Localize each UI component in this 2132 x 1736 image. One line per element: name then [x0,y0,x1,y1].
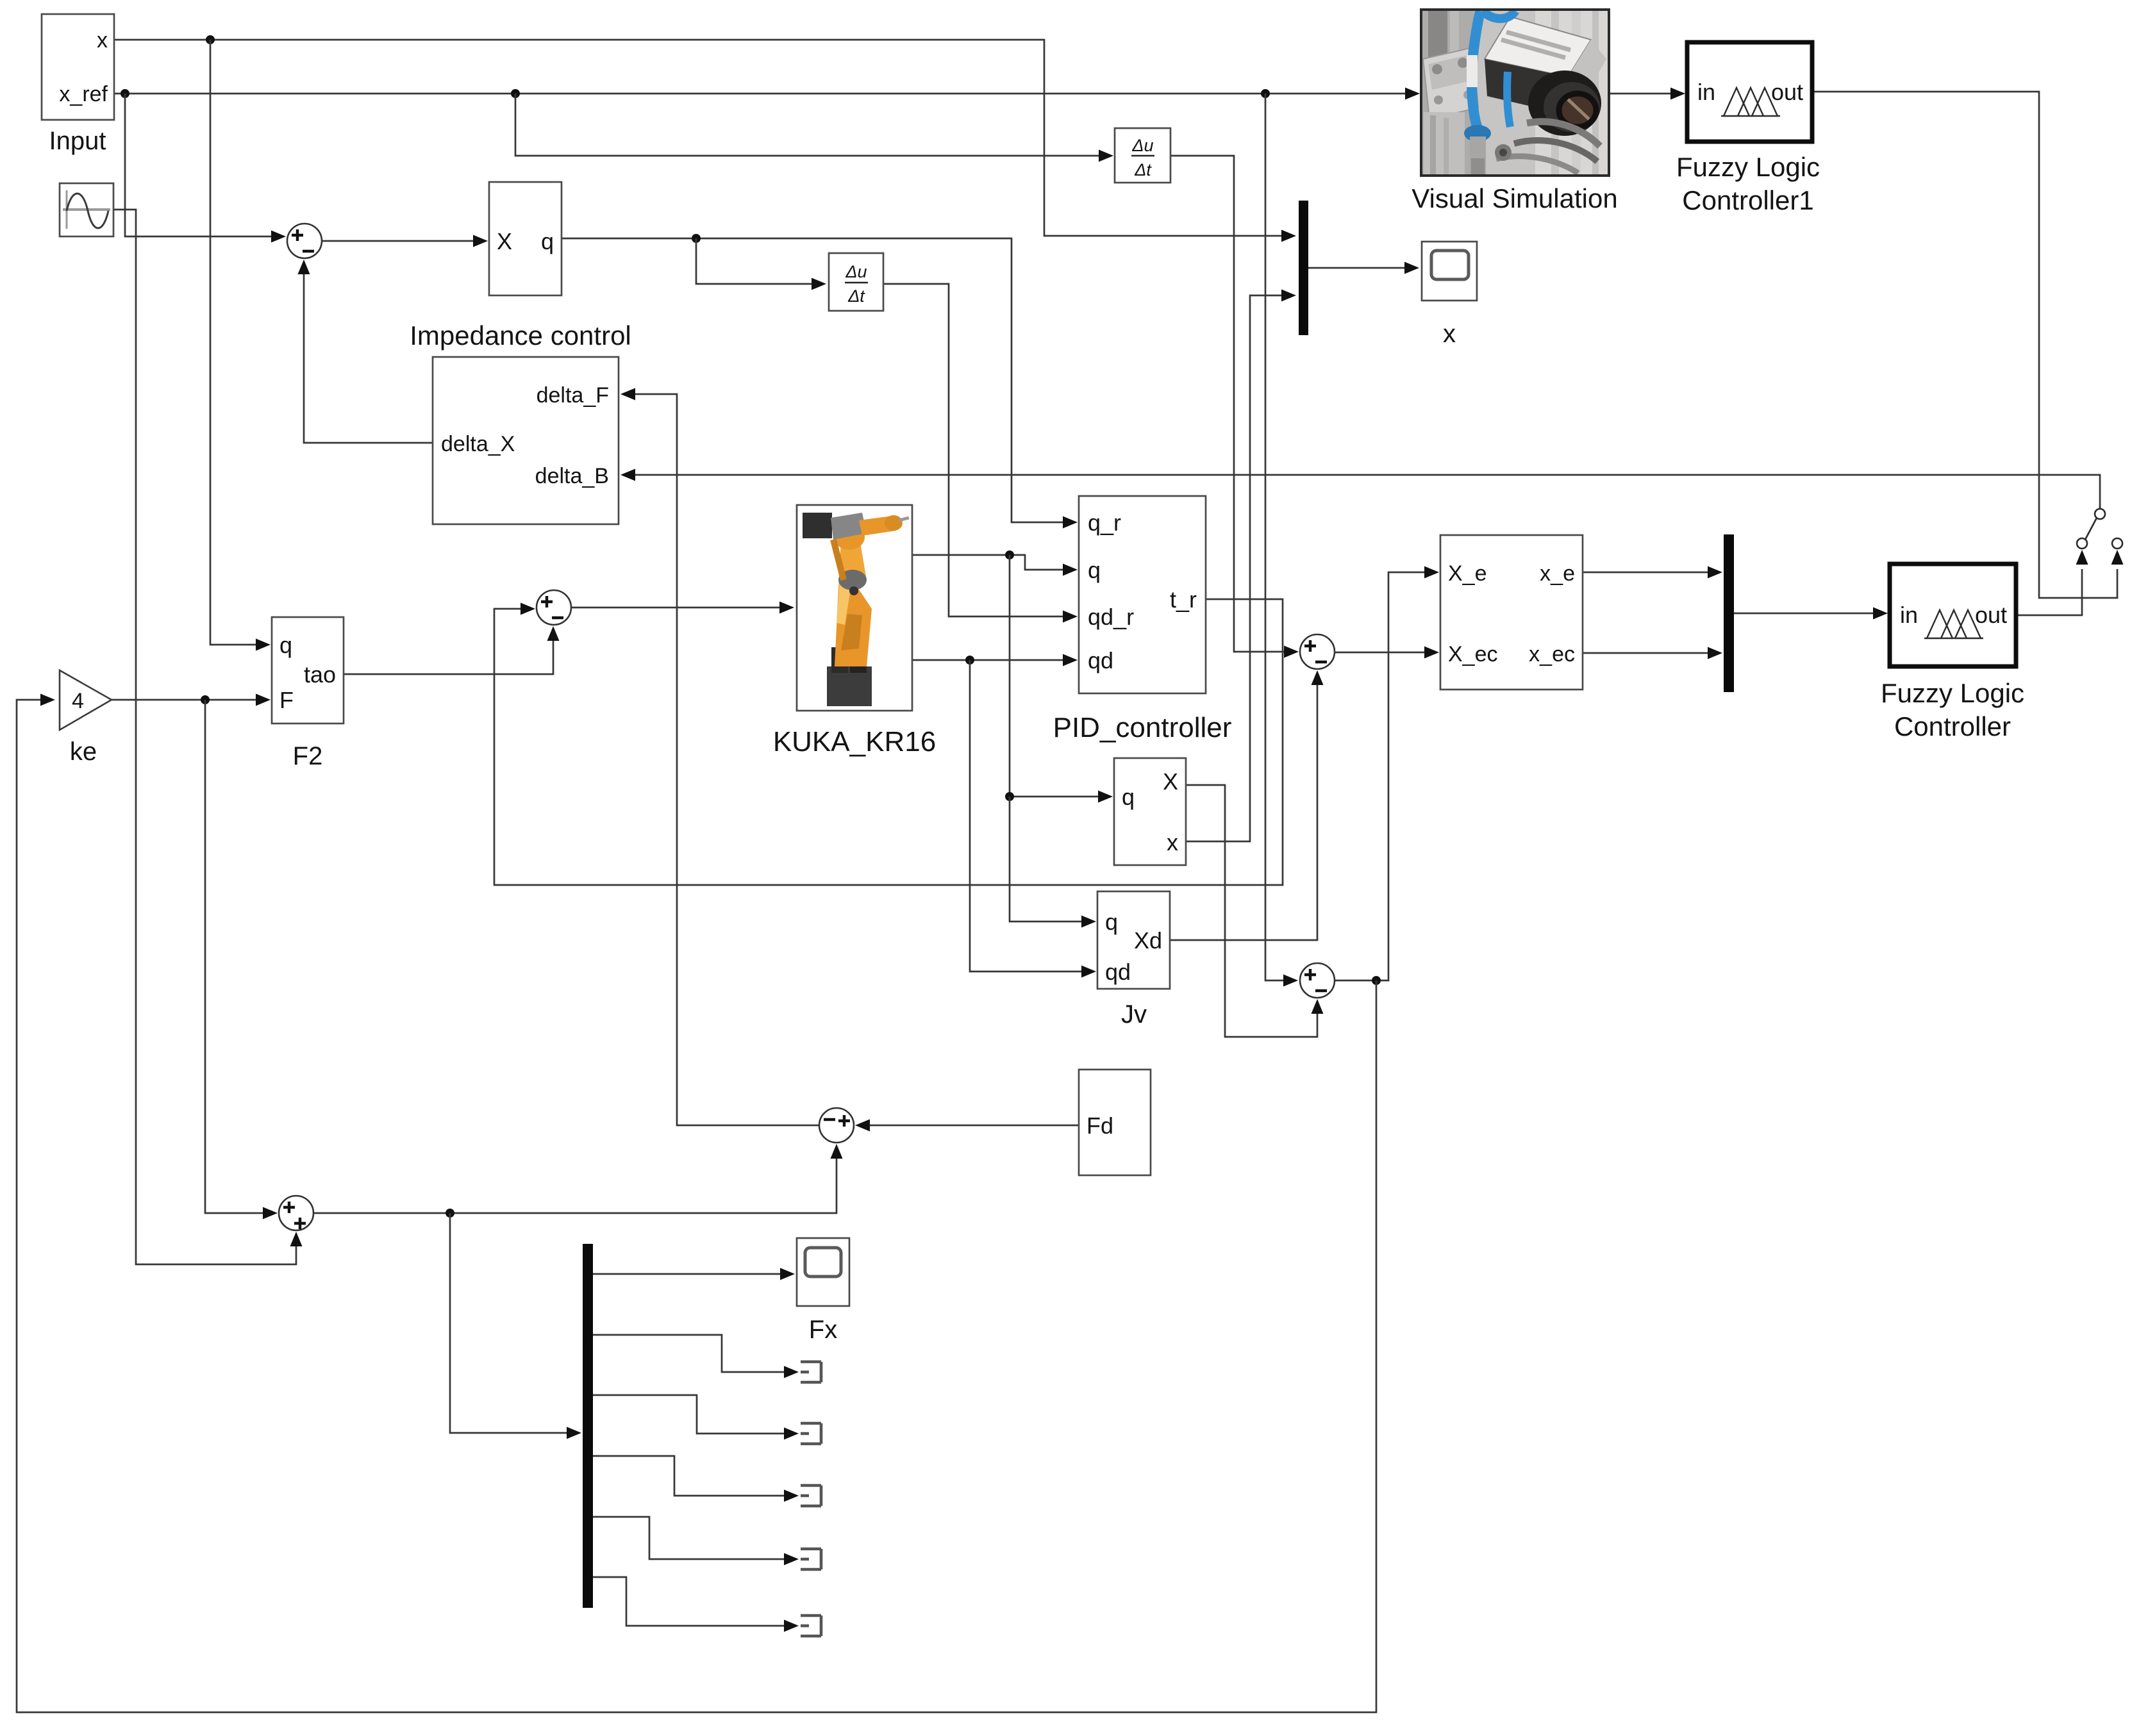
svg-text:Xd: Xd [1134,927,1162,954]
svg-text:F2: F2 [293,742,323,770]
block forward kinematics q to X x [1114,758,1186,865]
label x scope [1443,320,1456,348]
demux Demux [583,1244,593,1608]
block Input source subsystem [42,14,114,120]
label Fuzzy Logic Controller1 [1676,152,1820,215]
block Jv jacobian [1097,891,1170,989]
svg-text:Fd: Fd [1087,1112,1113,1139]
wire du/dt 1 output down to sum S3 [1170,156,1299,658]
svg-text:x: x [1167,829,1178,856]
wire Demux out2 to terminator T1 [593,1335,799,1378]
label F2 [293,742,323,770]
svg-text:Controller: Controller [1894,711,2011,741]
svg-text:Fuzzy Logic: Fuzzy Logic [1881,678,2024,708]
block Fuzzy Logic Controller [1890,564,2016,666]
wire Jv Xd output up to sum S3 bottom input [1170,670,1324,940]
mux Mux1 [1299,201,1308,335]
svg-text:Δt: Δt [1134,160,1152,179]
wire ke branch down to sum SF left input [205,700,278,1219]
svg-text:q: q [1105,909,1118,935]
label Visual Simulation [1412,183,1617,213]
wire X output of forward kinematics to sum S4 bottom input [1186,785,1324,1037]
wire sum S4 feedback around bottom to gain ke [17,694,1376,1713]
wire KUKA q output to PID q [912,550,1078,576]
label Fuzzy Logic Controller [1881,678,2024,741]
label Fx [809,1316,837,1344]
svg-text:in: in [1900,602,1918,628]
block KUKA_KR16 with robot image [797,505,912,711]
wire manual switch output to delta_B input [620,469,2100,510]
wire Demux out1 to scope Fx [593,1268,795,1280]
sum S3 velocity error [1300,634,1335,669]
svg-text:x: x [97,28,108,53]
svg-text:Input: Input [49,127,106,155]
wire Fuzzy Logic Controller1 out down to switch right pin [1812,92,2117,598]
svg-text:x: x [1443,320,1456,348]
svg-text:x_e: x_e [1540,561,1575,586]
svg-text:X_e: X_e [1448,561,1487,586]
gain ke triangle [60,670,112,730]
wire Demux out5 to terminator T4 [593,1517,799,1566]
sum S2 torque [537,590,571,625]
block X_e X_ec scaling [1440,535,1583,690]
svg-text:Fx: Fx [809,1316,837,1344]
svg-text:Jv: Jv [1121,1000,1147,1029]
svg-text:q: q [1088,557,1101,583]
wire sum S4 to X_e input [1335,566,1439,986]
wire F2 tao to sum S2 bottom input [344,626,560,674]
sum S4 position error [1300,963,1335,998]
label ke [70,738,97,766]
svg-text:qd: qd [1105,959,1131,985]
wire sum SF to sum S5 bottom input [313,1144,843,1218]
block Impedance control subsystem [433,357,619,524]
svg-text:4: 4 [72,689,84,713]
wire q branch to forward kinematics q input [1005,555,1113,803]
wire x_ref branch down to sum S4 [1265,94,1298,987]
label KUKA_KR16 [773,726,936,757]
svg-text:x_ec: x_ec [1529,642,1575,666]
svg-text:Impedance control: Impedance control [410,320,631,351]
wire sum S2 to KUKA_KR16 input [571,602,794,614]
wire Demux out3 to terminator T2 [593,1395,799,1440]
wire x_ref branch to derivative du/dt 1 [515,94,1113,162]
svg-text:X: X [497,228,512,254]
wire sum S1 to inverse kinematics block [322,235,488,247]
sum S5 force error [819,1108,854,1143]
label Jv [1121,1000,1147,1029]
wire du/dt 2 output to PID qd_r [883,284,1078,623]
block F2 [272,617,344,723]
scope block x [1422,242,1477,301]
wire Demux out4 to terminator T3 [593,1456,799,1502]
svg-text:q: q [541,228,554,254]
label Input [49,127,106,155]
sum SF force plus disturbance [279,1196,313,1230]
wire x branch down to F2 q input [210,40,271,651]
wire sine wave down to sum SF bottom input [113,210,303,1264]
svg-text:Δu: Δu [845,262,867,281]
block Visual Simulation (photo) [1421,10,1609,176]
wire x output of forward kinematics up to Mux1 input 2 [1186,290,1296,842]
svg-text:t_r: t_r [1170,586,1197,613]
block Fd desired force [1079,1070,1151,1175]
svg-text:delta_X: delta_X [441,432,515,456]
mux Mux2 [1724,534,1734,692]
svg-text:KUKA_KR16: KUKA_KR16 [773,726,936,757]
wire PID t_r feedback to sum S2 [494,599,1283,885]
wire SF branch down to Demux input [450,1213,581,1439]
manual switch [2076,505,2124,565]
sum S1 x_ref minus delta_X [287,224,322,258]
svg-text:X: X [1163,768,1178,795]
block Fuzzy Logic Controller1 [1687,42,1812,142]
wire x_e output to Mux2 input 1 [1583,566,1722,579]
wire sum S5 up to delta_F input [620,388,819,1126]
wire x_ref branch to sum S1 [125,94,286,243]
svg-text:qd_r: qd_r [1088,604,1134,630]
svg-text:PID_controller: PID_controller [1053,712,1232,743]
terminator T1 [801,1362,821,1382]
svg-text:Visual Simulation: Visual Simulation [1412,183,1617,213]
wire sum S3 to X_ec input [1335,647,1439,659]
wire delta_X output to sum S1 bottom input [298,260,433,443]
wire Mux1 to scope x [1308,262,1419,274]
wire KUKA qd output to PID qd [912,654,1078,666]
svg-text:q: q [279,632,292,658]
svg-text:out: out [1975,602,2007,628]
svg-text:delta_F: delta_F [537,383,609,408]
label PID_controller [1053,712,1232,743]
derivative block du/dt 1 [1115,128,1170,183]
label Impedance control [410,320,631,351]
wire Visual Simulation to Fuzzy Logic Controller1 in [1609,88,1685,100]
svg-text:X_ec: X_ec [1448,642,1498,666]
svg-text:q: q [1122,784,1135,810]
svg-text:Δu: Δu [1131,136,1153,155]
svg-text:Controller1: Controller1 [1682,185,1813,215]
terminator T3 [801,1485,821,1506]
svg-text:q_r: q_r [1088,509,1121,536]
wire q output of inverse kinematics to PID q_r [562,234,1078,529]
sine wave source block [60,183,113,236]
block PID_controller [1079,496,1206,693]
wire Fuzzy Logic Controller out up to switch left pin [2016,569,2082,615]
wire Fd to sum S5 right input [855,1120,1079,1132]
svg-text:qd: qd [1088,647,1113,674]
wire qd branch to Jv qd input [970,660,1096,978]
wire q branch to Jv q input [1010,797,1096,928]
terminator T4 [801,1549,821,1569]
wire Mux2 to Fuzzy Logic Controller in [1734,608,1888,620]
svg-text:Δt: Δt [847,286,865,306]
svg-text:in: in [1697,79,1715,105]
svg-text:tao: tao [304,661,336,688]
wire q branch down to derivative du/dt 2 [696,238,826,290]
wire x_ec output to Mux2 input 2 [1583,647,1722,659]
block inverse kinematics X to q [489,182,562,295]
wire x_ref output of Input to Visual Simulation [114,88,1420,100]
svg-text:ke: ke [70,738,97,766]
wire Demux out6 to terminator T5 [593,1577,799,1632]
svg-text:x_ref: x_ref [59,82,108,106]
derivative block du/dt 2 [829,253,883,311]
wire x output of Input to Mux1 input 1 [114,35,1296,242]
terminator T5 [801,1616,821,1636]
svg-text:delta_B: delta_B [535,464,609,488]
svg-text:F: F [279,687,294,713]
terminator T2 [801,1423,821,1444]
wire gain ke to F2 F input [112,694,271,706]
svg-text:out: out [1771,79,1803,105]
svg-text:Fuzzy Logic: Fuzzy Logic [1676,152,1820,182]
scope block Fx [797,1238,849,1306]
